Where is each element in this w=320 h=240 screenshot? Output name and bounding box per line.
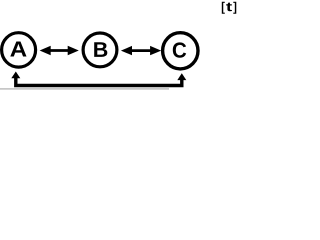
label [t] bracket right [233, 2, 236, 14]
wire A-C bottom connector [16, 77, 182, 86]
node C label [173, 42, 186, 57]
arrowhead toward C [150, 46, 161, 55]
node A label [10, 42, 26, 57]
arrowhead toward B [68, 46, 79, 55]
node A circle [2, 33, 36, 67]
arrowhead toward B [121, 46, 132, 55]
node C circle [163, 33, 198, 69]
label [t] bracket left [222, 2, 225, 14]
node B circle [83, 33, 117, 67]
arrowhead up toward C [177, 73, 186, 80]
wire B-C double arrow shaft [128, 49, 154, 52]
label [t] letter t [226, 3, 232, 12]
wire A-B double arrow shaft [47, 49, 71, 52]
arrowhead up toward A [11, 72, 20, 79]
arrowhead toward A [40, 46, 51, 55]
scan artifact gray line [0, 88, 169, 89]
node B label [94, 42, 107, 57]
